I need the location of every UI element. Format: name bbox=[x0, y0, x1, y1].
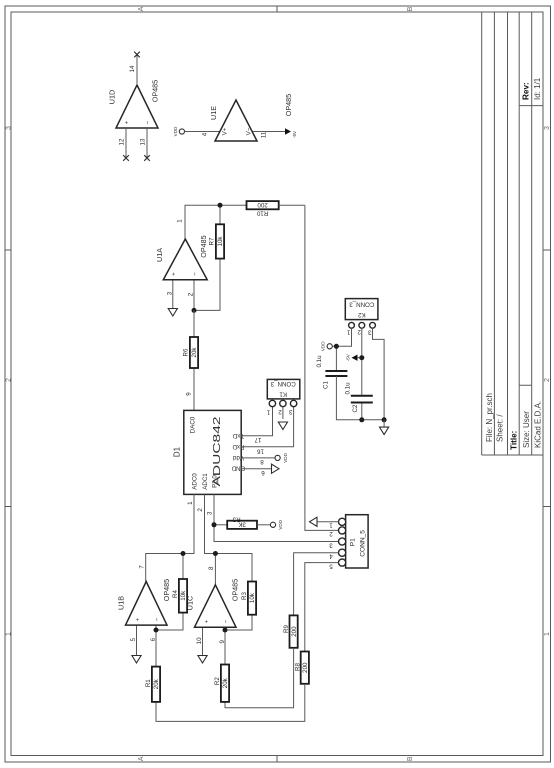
resistor R6 20k bbox=[182, 337, 198, 368]
ground arrow at U1A pin 3 bbox=[168, 309, 177, 317]
op-amp U1B OP485 bbox=[116, 565, 171, 642]
svg-text:Id: 1/1: Id: 1/1 bbox=[533, 77, 542, 100]
power VDD symbol at K2 pin 1 bbox=[321, 341, 333, 351]
connector K1 CONN_3 bbox=[267, 379, 300, 406]
svg-text:5: 5 bbox=[130, 637, 137, 641]
svg-text:−: − bbox=[192, 272, 199, 276]
resistor R3 10k bbox=[241, 582, 256, 615]
junction U1C out / ADC1 net bbox=[213, 551, 218, 556]
svg-text:R6: R6 bbox=[182, 348, 189, 356]
svg-text:2: 2 bbox=[357, 328, 361, 335]
svg-text:R9: R9 bbox=[283, 624, 290, 632]
svg-text:VDD: VDD bbox=[321, 341, 326, 351]
svg-text:U1C: U1C bbox=[185, 596, 194, 610]
svg-text:D1: D1 bbox=[173, 446, 182, 457]
ground arrow at U1C pin 10 bbox=[198, 656, 207, 664]
svg-text:P1: P1 bbox=[349, 538, 356, 546]
ground arrow at ADUC GND pin bbox=[272, 464, 280, 473]
svg-text:17: 17 bbox=[254, 436, 261, 443]
svg-text:U1E: U1E bbox=[209, 106, 218, 120]
svg-text:200: 200 bbox=[302, 662, 309, 673]
svg-text:6: 6 bbox=[261, 469, 265, 476]
svg-text:5: 5 bbox=[329, 562, 333, 569]
wire U1B inverting input pin 6 bbox=[155, 625, 157, 667]
wire P1 pin 5 to R8 bbox=[305, 563, 339, 652]
svg-text:B: B bbox=[407, 6, 414, 11]
wire ADC1 to R3 bbox=[205, 494, 253, 581]
power arrow -5V at U1E pin 11 bbox=[285, 128, 297, 138]
svg-text:R1: R1 bbox=[145, 679, 152, 687]
IC U D1 ADUC842 bbox=[173, 410, 246, 494]
svg-text:R5: R5 bbox=[232, 515, 240, 522]
wire U1C non-inverting input pin 10 bbox=[202, 627, 204, 656]
junction power arrow / K2 pin 2 net bbox=[359, 355, 364, 360]
ground arrow at U1B pin 5 bbox=[132, 656, 141, 664]
svg-text:OP485: OP485 bbox=[231, 579, 240, 601]
junction VDD / C1 bbox=[334, 344, 339, 349]
no-connect X on U1D pin 14 bbox=[134, 52, 140, 58]
wire R8 to R1 / U1B- bbox=[156, 684, 305, 722]
svg-text:R8: R8 bbox=[294, 662, 301, 670]
junction rail / ground bbox=[382, 417, 387, 422]
svg-text:R7: R7 bbox=[209, 237, 216, 245]
svg-text:9: 9 bbox=[219, 639, 226, 643]
svg-text:VDD: VDD bbox=[173, 126, 178, 136]
svg-text:U1B: U1B bbox=[116, 596, 125, 610]
power VDD symbol at U1E V+ bbox=[173, 126, 185, 136]
wire long net R10 to P1 pin 2 bbox=[305, 205, 339, 530]
svg-text:1: 1 bbox=[329, 522, 333, 529]
svg-text:A: A bbox=[138, 756, 145, 761]
wire R4 to U1B output net bbox=[182, 554, 184, 580]
svg-text:CONN_5: CONN_5 bbox=[360, 530, 367, 557]
svg-text:3: 3 bbox=[6, 126, 13, 130]
junction U1A out / R7 / R10 bbox=[218, 203, 223, 208]
svg-text:V+: V+ bbox=[221, 127, 228, 135]
svg-text:4: 4 bbox=[329, 553, 333, 560]
wire U1B non-inverting input pin 5 bbox=[136, 625, 138, 656]
svg-text:K1: K1 bbox=[279, 390, 287, 397]
no-connect X on U1D pin 13 bbox=[144, 155, 150, 161]
junction P2.0 / R5 bbox=[212, 522, 217, 527]
svg-text:VDD: VDD bbox=[283, 452, 288, 462]
junction R4 / R1 / U1B- bbox=[154, 628, 159, 633]
svg-text:0.1u: 0.1u bbox=[344, 382, 351, 395]
resistor R5 3K bbox=[227, 515, 257, 529]
svg-text:3: 3 bbox=[289, 408, 293, 415]
svg-text:16: 16 bbox=[257, 448, 264, 455]
svg-text:OP485: OP485 bbox=[284, 94, 293, 116]
svg-text:C1: C1 bbox=[322, 380, 329, 388]
svg-text:ADC1: ADC1 bbox=[202, 473, 209, 490]
svg-text:1: 1 bbox=[544, 632, 551, 636]
capacitor C1 0.1u bbox=[316, 355, 347, 389]
svg-text:2: 2 bbox=[544, 378, 551, 382]
svg-text:-5V: -5V bbox=[292, 130, 297, 138]
wire U1D input pin 13 bbox=[146, 128, 148, 158]
svg-text:C2: C2 bbox=[352, 404, 359, 412]
wire U1D input pin 12 bbox=[125, 128, 127, 158]
resistor R10 200 bbox=[247, 201, 279, 216]
op-amp U1C OP485 bbox=[185, 566, 239, 644]
svg-text:2: 2 bbox=[6, 378, 13, 382]
svg-text:CONN_3: CONN_3 bbox=[270, 380, 296, 387]
svg-text:200: 200 bbox=[291, 626, 298, 637]
svg-text:R4: R4 bbox=[172, 589, 179, 597]
svg-text:20k: 20k bbox=[222, 677, 229, 688]
wire K2 pin 2 to C2 bbox=[361, 328, 363, 396]
svg-text:−: − bbox=[154, 617, 161, 621]
svg-text:2: 2 bbox=[197, 508, 204, 512]
svg-text:6: 6 bbox=[150, 637, 157, 641]
wire U1A inverting input pin 2 bbox=[193, 280, 195, 311]
svg-text:Title:: Title: bbox=[509, 431, 518, 450]
connector P1 CONN_5 bbox=[339, 515, 369, 568]
wire R3 to U1C- node bbox=[225, 615, 252, 630]
op-amp U1A OP485 bbox=[155, 219, 208, 297]
svg-text:Sheet: /: Sheet: / bbox=[495, 414, 504, 442]
svg-text:B: B bbox=[407, 756, 414, 761]
resistor R8 200 bbox=[294, 652, 309, 684]
svg-text:1: 1 bbox=[346, 329, 350, 336]
resistor R4 10k bbox=[172, 579, 187, 613]
svg-text:R10: R10 bbox=[256, 209, 268, 216]
svg-text:10k: 10k bbox=[249, 592, 256, 603]
svg-text:3: 3 bbox=[207, 511, 214, 515]
svg-text:0.1u: 0.1u bbox=[316, 355, 323, 368]
wire K1 pin 2 to ground bbox=[282, 407, 284, 419]
K1 pin numbers 1 2 3 bbox=[266, 408, 292, 416]
wire P1 pin 1 to ground bbox=[317, 521, 339, 523]
wire U1A output to R10 bbox=[185, 205, 247, 239]
svg-text:3: 3 bbox=[544, 126, 551, 130]
wire R7 to output node bbox=[219, 205, 221, 224]
svg-text:+: + bbox=[203, 619, 210, 623]
svg-text:U1A: U1A bbox=[155, 248, 164, 262]
svg-text:DAC0: DAC0 bbox=[190, 416, 197, 433]
svg-text:R3: R3 bbox=[241, 591, 248, 599]
power VDD symbol at ADUC Vdd pin bbox=[275, 452, 288, 462]
svg-text:V−: V− bbox=[245, 127, 252, 135]
title block bbox=[482, 12, 543, 455]
svg-text:Size: User: Size: User bbox=[522, 411, 531, 448]
svg-text:ADC0: ADC0 bbox=[191, 473, 198, 490]
wire R6 to U1A- node bbox=[193, 310, 195, 337]
wire P2.0 to P1 pin 3 bbox=[214, 494, 339, 541]
wire TxD to K1 pin 1 bbox=[241, 407, 272, 436]
wire K2 pin 3 to gnd rail bbox=[373, 328, 385, 420]
svg-text:R2: R2 bbox=[214, 677, 221, 685]
svg-text:12: 12 bbox=[119, 138, 126, 145]
wire R10 to long net bbox=[279, 204, 305, 206]
svg-text:4: 4 bbox=[201, 132, 208, 136]
wire RxD to K1 pin 3 bbox=[241, 407, 293, 447]
svg-text:20k: 20k bbox=[191, 347, 198, 358]
svg-text:14: 14 bbox=[129, 65, 136, 72]
svg-text:10k: 10k bbox=[217, 236, 224, 247]
P1 pin numbers 1-5 bbox=[329, 522, 333, 570]
wire to C1 bbox=[335, 346, 337, 371]
wire GND pin bbox=[241, 468, 271, 470]
svg-text:200: 200 bbox=[257, 201, 268, 208]
wire U1C inverting input pin 9 bbox=[224, 627, 226, 664]
wire R5 to VDD bbox=[257, 524, 270, 526]
wire P2.0 node to R5 bbox=[214, 524, 227, 526]
resistor R2 20k bbox=[214, 665, 229, 702]
svg-text:3: 3 bbox=[368, 328, 372, 335]
svg-text:8: 8 bbox=[260, 458, 264, 465]
wire C1 to gnd rail bbox=[336, 376, 384, 420]
svg-text:File: N_pr.sch: File: N_pr.sch bbox=[485, 393, 494, 442]
svg-text:2: 2 bbox=[187, 292, 194, 296]
svg-text:CONN_3: CONN_3 bbox=[349, 300, 375, 307]
op-amp U1D OP485 bbox=[107, 80, 159, 128]
wire R9 to R2 / U1C- bbox=[225, 648, 294, 708]
capacitor C2 0.1u bbox=[344, 382, 372, 413]
wire stub to power arrow bbox=[358, 357, 362, 359]
svg-text:+: + bbox=[170, 272, 177, 276]
ground arrow at K2 rail bbox=[380, 427, 389, 435]
svg-text:1: 1 bbox=[176, 219, 183, 223]
svg-text:VDD: VDD bbox=[278, 519, 283, 529]
wire U1A non-inverting input pin 3 bbox=[172, 280, 174, 309]
svg-text:+: + bbox=[124, 120, 131, 124]
K2 pin numbers 1 2 3 bbox=[346, 328, 371, 336]
svg-text:P2.0: P2.0 bbox=[211, 475, 218, 488]
svg-text:7: 7 bbox=[138, 565, 145, 569]
svg-text:K2: K2 bbox=[357, 311, 365, 318]
resistor R1 20k bbox=[145, 667, 160, 702]
wire stub to ground arrow bbox=[383, 420, 385, 427]
wire U1E power rail V+ to V- bbox=[185, 131, 286, 133]
resistor R7 10k bbox=[209, 224, 225, 258]
svg-text:OP485: OP485 bbox=[199, 235, 208, 257]
svg-text:+: + bbox=[134, 617, 141, 621]
junction R6 / R7 / U1A- bbox=[192, 308, 197, 313]
svg-text:1: 1 bbox=[6, 632, 13, 636]
wire ADUC DAC0 pin 9 to R6 bbox=[193, 368, 195, 410]
junction C2 / rail bbox=[359, 417, 364, 422]
power arrow -5V at K2 pin 2 net bbox=[345, 353, 357, 361]
svg-text:-5V: -5V bbox=[345, 353, 350, 361]
power VDD symbol at R5 bbox=[270, 519, 283, 529]
svg-text:OP485: OP485 bbox=[151, 80, 160, 102]
svg-text:13: 13 bbox=[140, 138, 147, 145]
no-connect X on U1D pin 12 bbox=[123, 155, 129, 161]
svg-text:1: 1 bbox=[266, 409, 270, 416]
svg-text:A: A bbox=[138, 6, 145, 11]
wire Vdd pin to VDD symbol bbox=[241, 457, 275, 459]
svg-text:−: − bbox=[145, 120, 152, 124]
svg-text:OP485: OP485 bbox=[162, 579, 171, 601]
svg-text:10: 10 bbox=[196, 637, 203, 644]
wire U1C output pin 8 bbox=[214, 554, 216, 585]
svg-text:U1D: U1D bbox=[107, 90, 116, 104]
svg-text:−: − bbox=[223, 619, 230, 623]
svg-text:2: 2 bbox=[278, 408, 282, 415]
svg-text:3: 3 bbox=[329, 541, 333, 548]
junction R3 / R2 / U1C- bbox=[223, 628, 228, 633]
svg-text:8: 8 bbox=[208, 566, 215, 570]
svg-text:3: 3 bbox=[166, 291, 173, 295]
svg-text:Rev:: Rev: bbox=[522, 82, 531, 100]
junction R4 / U1B out net bbox=[181, 551, 186, 556]
connector K2 CONN_3 bbox=[345, 299, 378, 329]
wire P1 pin 4 to R9 bbox=[294, 553, 339, 616]
svg-text:9: 9 bbox=[185, 392, 192, 396]
wire U1B output to ADC0 bbox=[146, 494, 194, 581]
wire R4 to U1B- node bbox=[156, 613, 183, 630]
op-amp U1E OP485 power unit bbox=[201, 94, 293, 141]
wire VDD to K2 pin 1 bbox=[332, 328, 351, 346]
ground arrow at P1 pin 1 bbox=[310, 517, 318, 526]
svg-text:20k: 20k bbox=[153, 678, 160, 689]
resistor R9 200 bbox=[283, 615, 298, 647]
wire U1D output pin 14 bbox=[136, 55, 138, 85]
svg-text:2: 2 bbox=[329, 530, 333, 537]
svg-text:1: 1 bbox=[187, 501, 194, 505]
ground arrow at K1 pin 2 bbox=[278, 422, 287, 430]
wire C2 to gnd rail bbox=[361, 403, 363, 420]
svg-text:KiCad E.D.A.: KiCad E.D.A. bbox=[534, 401, 543, 448]
svg-text:11: 11 bbox=[260, 131, 267, 138]
wire feedback node to R7 bbox=[194, 259, 220, 311]
